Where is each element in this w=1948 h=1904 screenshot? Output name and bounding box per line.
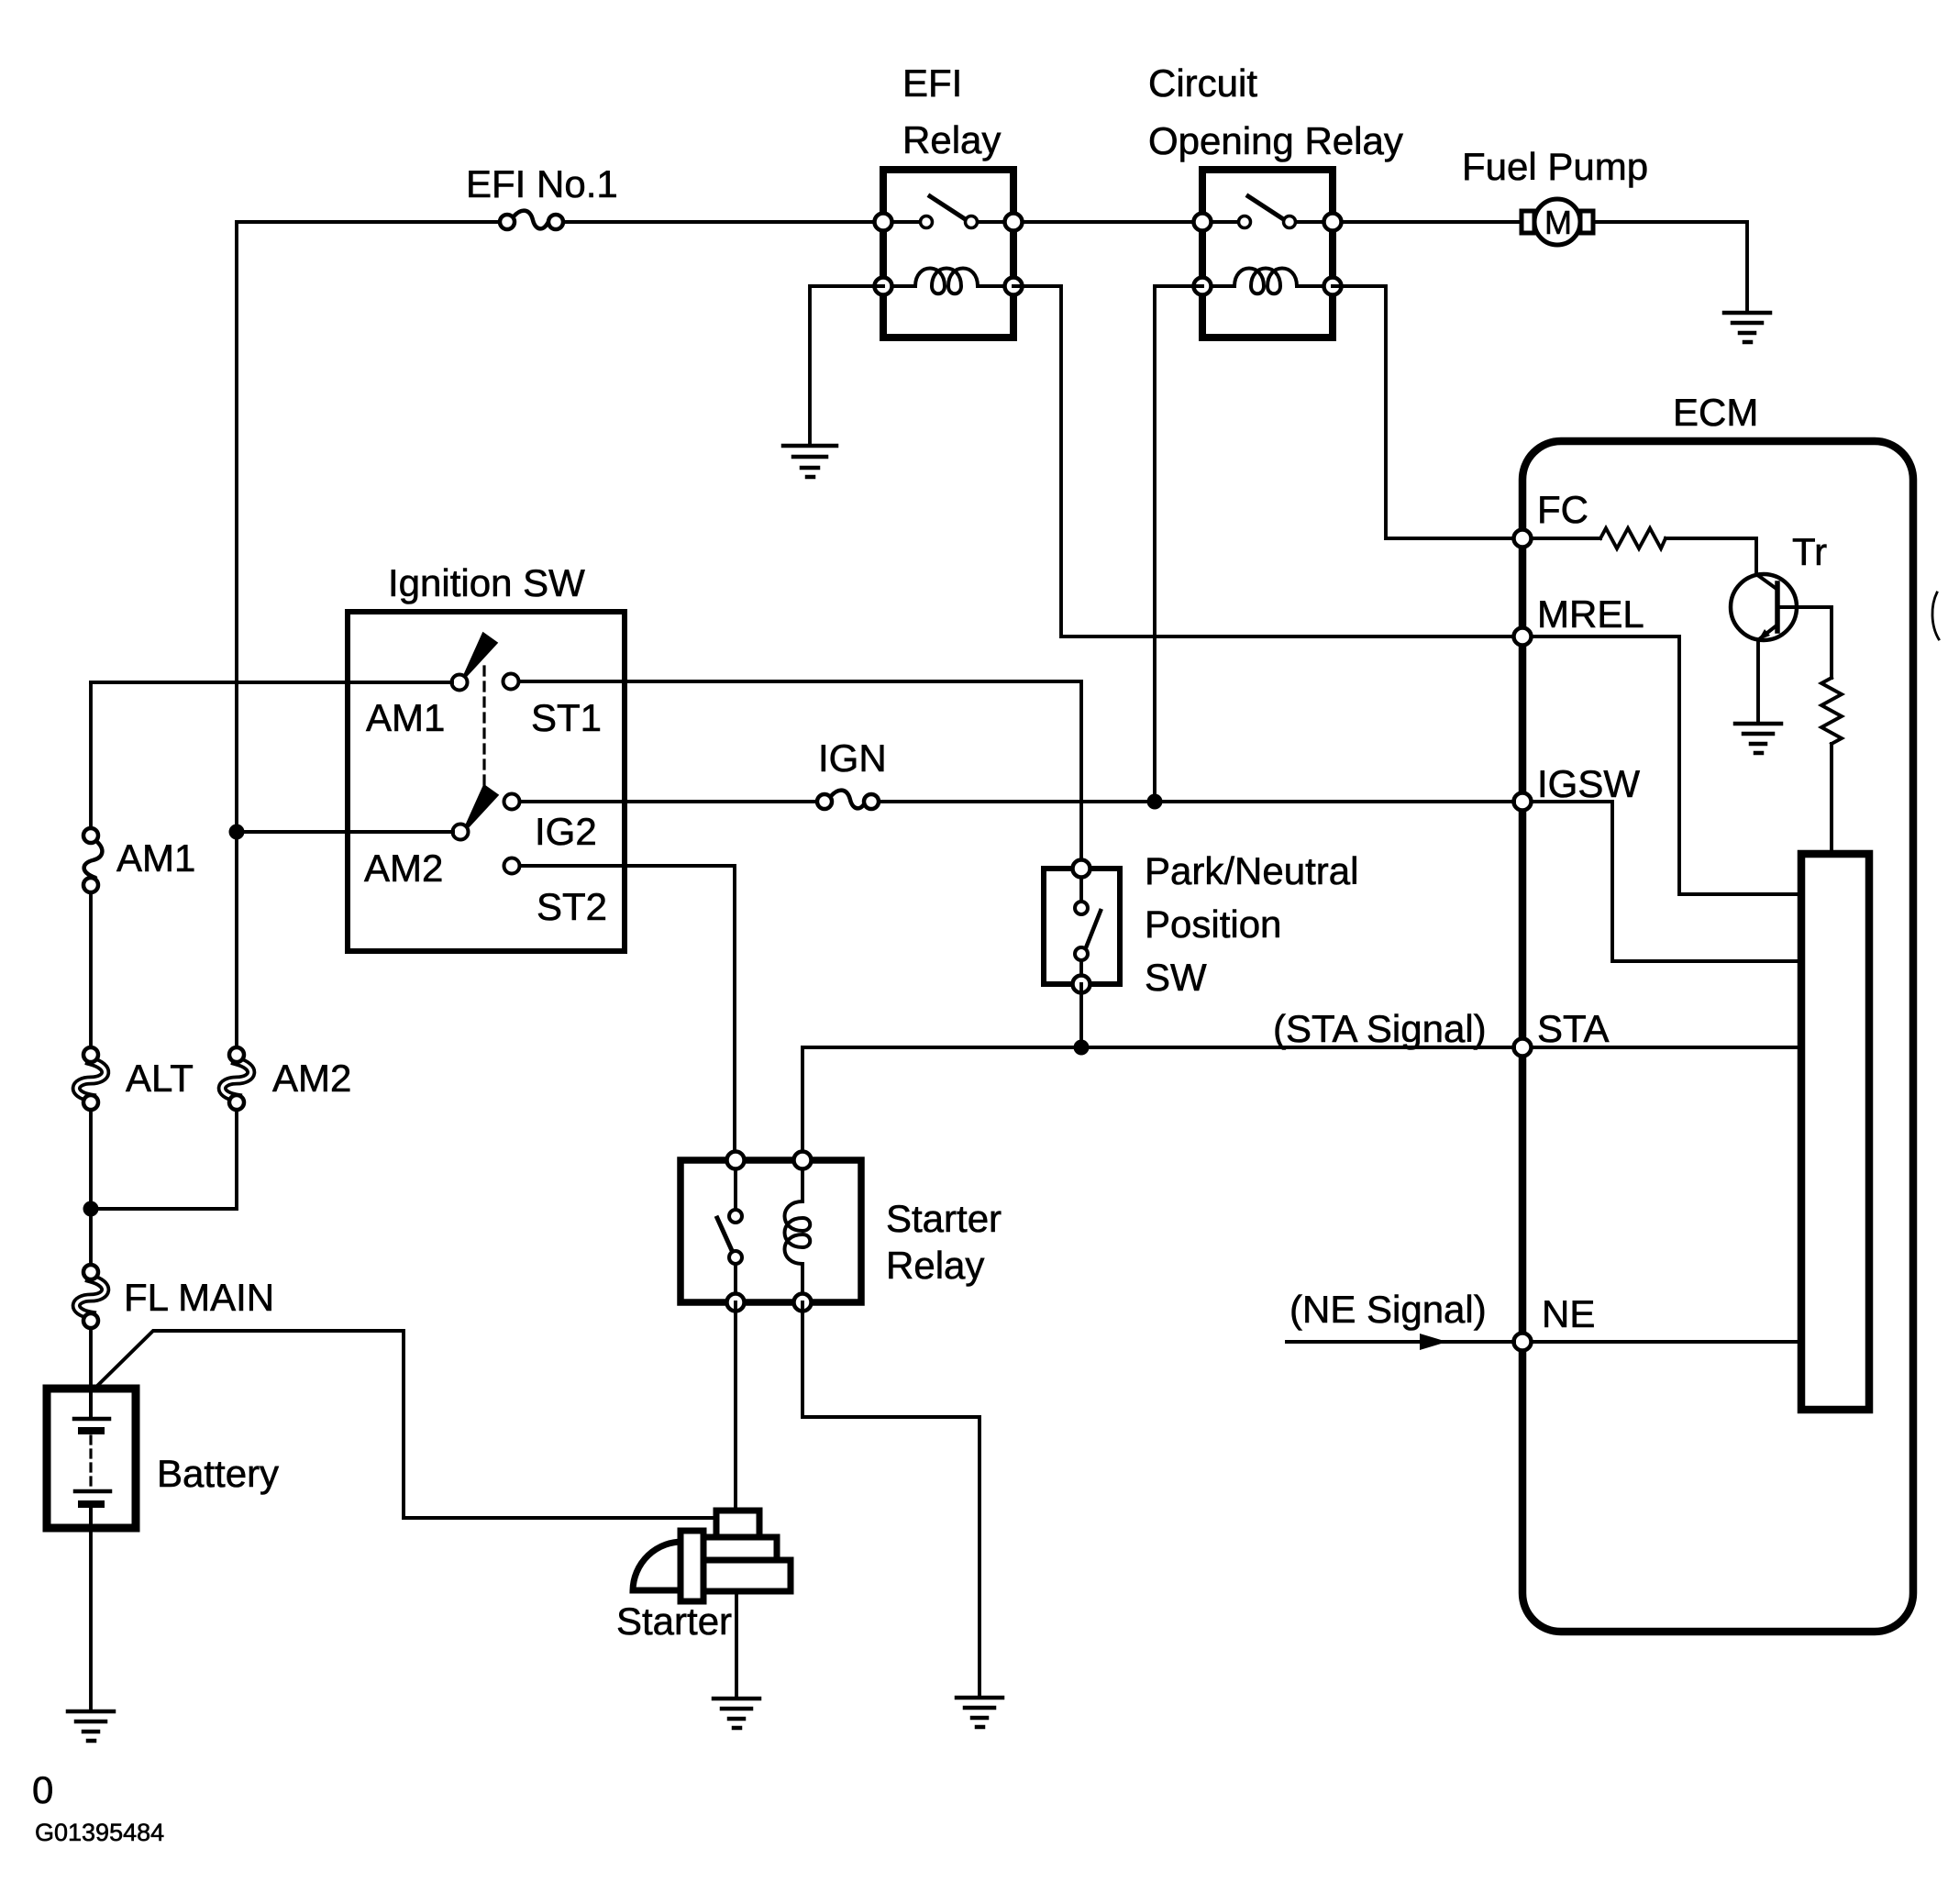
relay Circuit Opening Relay: [1148, 61, 1403, 338]
svg-text:FC: FC: [1537, 488, 1588, 531]
wire: MREL to connector block: [1531, 637, 1801, 894]
connector block inside ECM: [1801, 854, 1869, 1410]
wire: AM2 link to rail junction: [91, 1110, 237, 1209]
svg-text:Tr: Tr: [1792, 530, 1827, 573]
wire: battery rail top to EFI No.1 fuse: [237, 222, 500, 832]
terminal FC: [1514, 488, 1589, 548]
ground: transistor emitter: [1735, 724, 1781, 753]
transistor Tr: [1731, 530, 1827, 640]
wire: EFI relay coil to MREL: [1013, 286, 1514, 637]
relay Starter Relay: [681, 1152, 1002, 1312]
fusible link FL MAIN: [76, 1265, 274, 1328]
wire: battery positive to starter: [94, 1331, 716, 1518]
wire: AM1 fuse to ignition switch AM1: [91, 681, 452, 684]
svg-text:IGSW: IGSW: [1537, 762, 1640, 805]
ECM box U1: [1522, 391, 1913, 1632]
svg-text:NE: NE: [1542, 1292, 1595, 1335]
wire: circuit opening relay to fuel pump: [1333, 220, 1523, 224]
wire: IG2 to IGN fuse: [520, 800, 817, 803]
wire: STA signal line: [802, 1046, 1514, 1049]
svg-text:ECM: ECM: [1673, 391, 1758, 434]
svg-text:SW: SW: [1145, 956, 1207, 999]
relay EFI Relay: [875, 61, 1023, 338]
wire: left rail corner to AM1 fuse: [89, 682, 93, 828]
fusible link ALT: [76, 1047, 194, 1110]
wire: transistor emitter to ground: [1756, 640, 1760, 724]
wire: FL MAIN to battery: [89, 1328, 93, 1389]
ground: fuel pump: [1724, 313, 1770, 342]
svg-text:ST2: ST2: [537, 885, 607, 928]
wire: STA to connector block: [1531, 1046, 1801, 1049]
svg-text:Circuit: Circuit: [1148, 61, 1257, 105]
wire: battery negative to ground: [89, 1528, 93, 1711]
wire: circuit opening relay coil to FC: [1333, 286, 1514, 538]
starter motor: [616, 1511, 791, 1643]
right edge artifact: [1932, 592, 1939, 639]
ground: starter relay coil: [957, 1698, 1002, 1727]
svg-text:Relay: Relay: [902, 118, 1001, 161]
wire: left rail AM1 fuse to ALT link: [89, 892, 93, 1047]
svg-text:ST1: ST1: [531, 696, 602, 739]
svg-text:Battery: Battery: [157, 1452, 279, 1495]
terminal NE: [1514, 1292, 1596, 1351]
resistor base pull-down: [1821, 678, 1842, 744]
wire: fuse to EFI relay: [563, 220, 883, 224]
svg-text:EFI: EFI: [902, 61, 962, 105]
svg-text:EFI No.1: EFI No.1: [466, 162, 618, 205]
svg-text:MREL: MREL: [1537, 592, 1644, 636]
wire: IGN fuse to IGSW: [879, 800, 1514, 803]
fuse EFI No.1: [466, 162, 618, 229]
svg-text:STA: STA: [1537, 1007, 1610, 1050]
junction: park/neutral on STA line: [1074, 1040, 1090, 1056]
wire: NE signal line with arrow: [1287, 1334, 1514, 1350]
svg-text:AM2: AM2: [272, 1057, 351, 1100]
svg-text:AM2: AM2: [364, 847, 443, 890]
wire: EFI relay to circuit opening relay: [1013, 220, 1202, 224]
wire: fuel pump to ground: [1591, 222, 1747, 313]
junction: AM2 branch joins rail: [83, 1201, 99, 1217]
fuse AM1: [83, 828, 195, 892]
junction: AM2 wire tap: [229, 825, 245, 840]
svg-text:0: 0: [32, 1768, 53, 1811]
ground: starter: [714, 1699, 759, 1728]
wire: ST1 to park/neutral switch: [519, 681, 1081, 869]
switch Park/Neutral Position SW: [1044, 849, 1358, 999]
ground: battery: [68, 1711, 114, 1741]
svg-text:Starter: Starter: [886, 1197, 1002, 1240]
svg-text:FL MAIN: FL MAIN: [124, 1276, 274, 1319]
svg-text:Position: Position: [1145, 902, 1281, 946]
ground: EFI relay coil: [783, 446, 836, 477]
svg-text:ALT: ALT: [126, 1057, 194, 1100]
terminal IGSW: [1514, 762, 1641, 811]
wire: ST2 to starter relay: [520, 866, 735, 1160]
motor fuel pump: [1462, 145, 1648, 245]
wire: AM2 branch vertical: [235, 832, 238, 1047]
svg-text:AM1: AM1: [366, 696, 445, 739]
wire: STA line to starter relay coil: [801, 1047, 804, 1160]
svg-text:G01395484: G01395484: [35, 1819, 164, 1846]
wire: resistor to transistor collector: [1666, 538, 1756, 574]
wire: transistor base to resistor: [1780, 607, 1832, 678]
wire: starter relay to starter solenoid: [734, 1302, 737, 1511]
svg-text:Park/Neutral: Park/Neutral: [1145, 849, 1358, 892]
svg-text:AM1: AM1: [116, 836, 195, 880]
battery: [47, 1389, 279, 1528]
terminal STA: [1514, 1007, 1610, 1057]
wire: starter relay coil to ground: [802, 1302, 980, 1698]
fusible link AM2: [222, 1047, 351, 1110]
fuse IGN: [817, 736, 887, 809]
svg-text:Fuel Pump: Fuel Pump: [1462, 145, 1648, 188]
svg-text:M: M: [1544, 204, 1572, 241]
junction: circuit opening relay coil on IGN line: [1147, 794, 1163, 810]
wire: IGSW to connector block: [1531, 802, 1801, 961]
terminal MREL: [1514, 592, 1644, 646]
svg-text:IGN: IGN: [818, 736, 887, 780]
svg-text:(NE Signal): (NE Signal): [1289, 1288, 1487, 1331]
wire: resistor to connector block: [1830, 744, 1833, 854]
wire: AM2 tap to ignition switch AM2: [237, 830, 453, 834]
svg-text:(STA Signal): (STA Signal): [1273, 1007, 1487, 1050]
svg-text:Opening Relay: Opening Relay: [1148, 119, 1403, 162]
svg-text:Relay: Relay: [886, 1244, 984, 1287]
wire: NE to connector block: [1531, 1340, 1801, 1344]
svg-text:IG2: IG2: [535, 810, 597, 853]
wire: ALT link to FL MAIN: [89, 1110, 93, 1267]
svg-text:Starter: Starter: [616, 1600, 732, 1643]
resistor FC pull-up: [1600, 528, 1666, 548]
wire: EFI relay coil to ground: [810, 286, 883, 446]
switch Ignition SW: [348, 561, 625, 951]
wire: park/neutral switch to STA line: [1079, 984, 1083, 1047]
wire: circuit opening relay coil to IGN line: [1155, 286, 1202, 802]
svg-text:Ignition SW: Ignition SW: [388, 561, 585, 604]
wire: starter to ground: [735, 1591, 738, 1699]
wire: FC to resistor: [1531, 537, 1600, 540]
